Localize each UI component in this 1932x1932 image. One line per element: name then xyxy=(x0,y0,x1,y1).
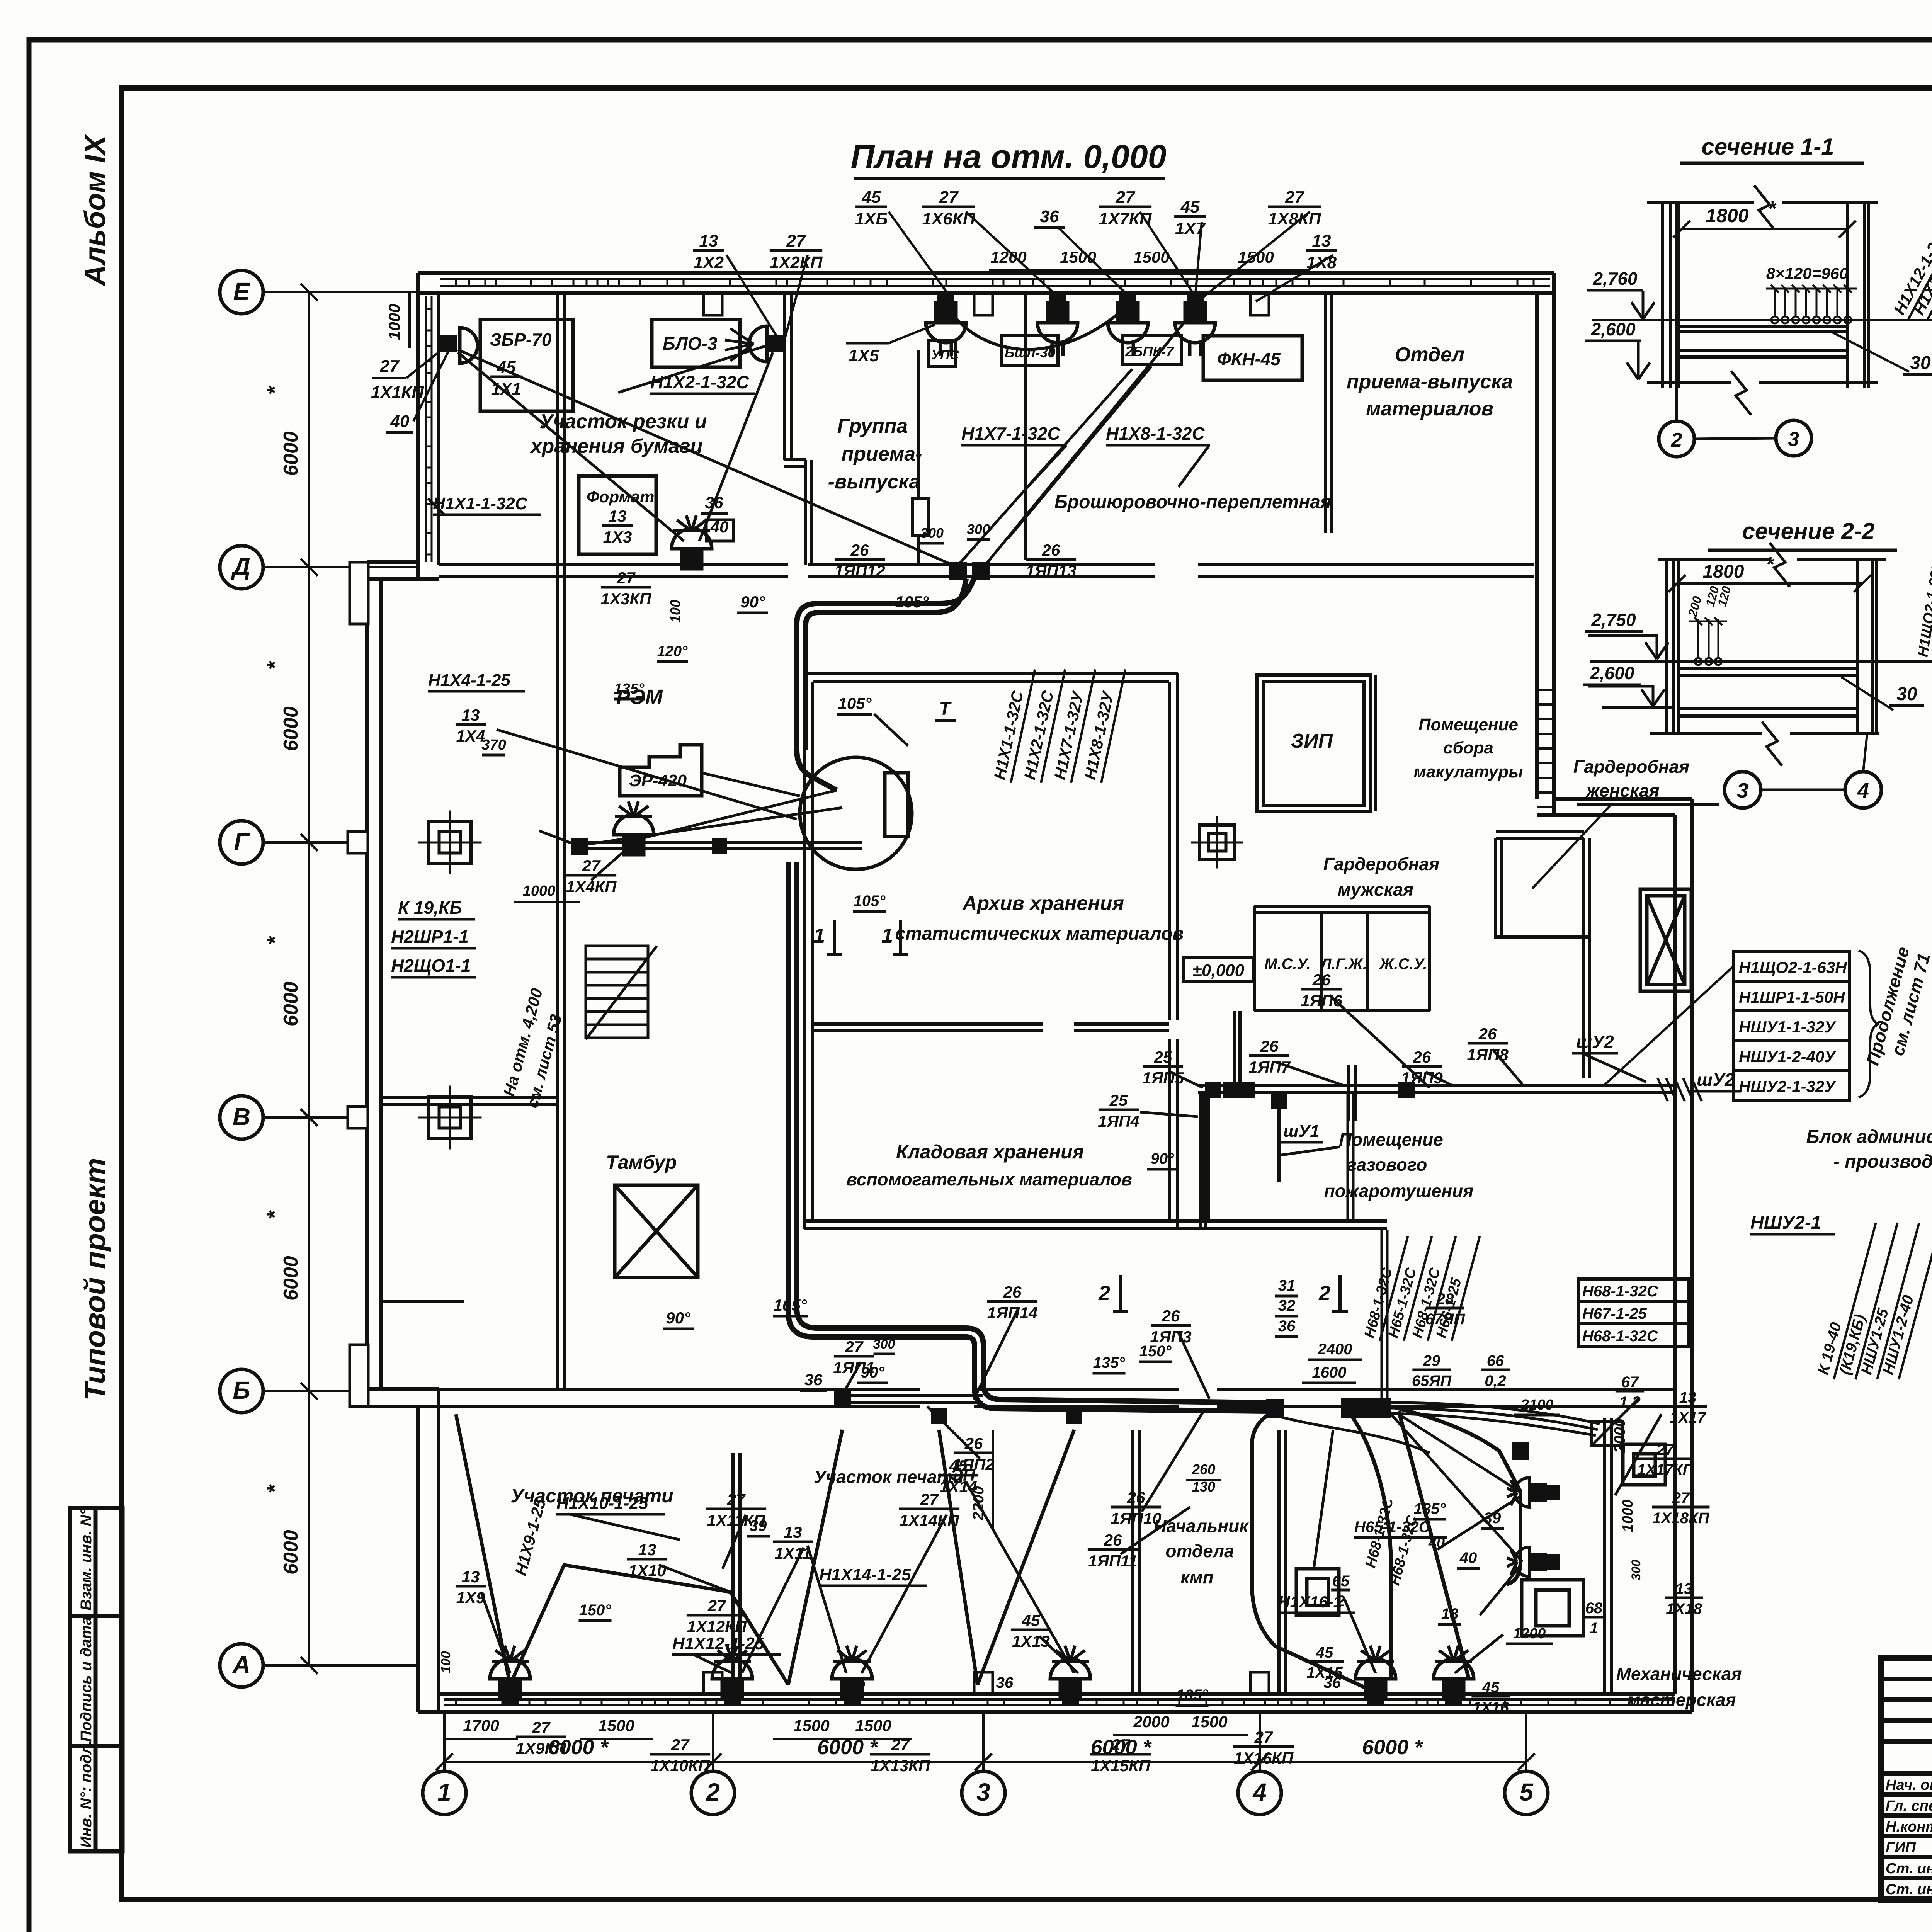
svg-text:Кладовая хранения: Кладовая хранения xyxy=(896,1141,1084,1163)
corridor y2815 boxes xyxy=(1205,1082,1221,1098)
svg-text:сечение 2-2: сечение 2-2 xyxy=(1742,518,1874,544)
svg-text:*: * xyxy=(1766,553,1775,576)
right rooms lamps xyxy=(1507,1478,1546,1507)
svg-text:НШУ2-1: НШУ2-1 xyxy=(1750,1213,1821,1233)
axis circles left xyxy=(220,270,263,314)
svg-text:26: 26 xyxy=(1312,971,1331,989)
svg-text:32: 32 xyxy=(1278,1297,1296,1314)
svg-text:3: 3 xyxy=(1737,779,1748,802)
svg-text:НШУ1-2-40У: НШУ1-2-40У xyxy=(1739,1048,1837,1066)
hatch ticks at shU2 wall crossing xyxy=(1658,1078,1702,1101)
svg-text:45: 45 xyxy=(949,1457,968,1475)
svg-text:1ЯП6: 1ЯП6 xyxy=(1301,992,1342,1010)
left bottom diagonals (lamp circuits) xyxy=(456,1414,1074,1685)
FKN-45 box xyxy=(1203,336,1302,380)
wardrobe block walls right wing xyxy=(1496,831,1589,1078)
svg-text:План на отм. 0,000: План на отм. 0,000 xyxy=(850,138,1166,175)
svg-text:26: 26 xyxy=(1042,541,1060,559)
R5 cluster to bottom right rooms xyxy=(1252,1406,1520,1692)
svg-text:6000: 6000 xyxy=(280,431,302,476)
svg-text:36: 36 xyxy=(1040,207,1059,226)
svg-text:30: 30 xyxy=(1910,353,1931,373)
svg-text:1ХБ: 1ХБ xyxy=(855,209,888,228)
stair in right strip xyxy=(1537,690,1554,807)
lamp near BLO-3 xyxy=(768,335,785,352)
svg-text:Блок административно-: Блок административно- xyxy=(1806,1127,1932,1147)
svg-text:1Х10КП: 1Х10КП xyxy=(650,1757,710,1775)
svg-text:65ЯП: 65ЯП xyxy=(1412,1372,1452,1389)
top wall lamps xyxy=(937,292,954,309)
Format box xyxy=(579,476,656,554)
svg-text:Е: Е xyxy=(233,277,251,305)
svg-text:шУ1: шУ1 xyxy=(1283,1122,1319,1141)
svg-text:*: * xyxy=(262,386,287,395)
svg-text:31: 31 xyxy=(1278,1277,1296,1294)
svg-text:Н67-1-25: Н67-1-25 xyxy=(1582,1305,1647,1322)
svg-text:Б: Б xyxy=(233,1376,250,1404)
svg-text:40: 40 xyxy=(1428,1535,1445,1551)
lower corridor boxes xyxy=(834,1389,851,1406)
svg-text:Механическая: Механическая xyxy=(1616,1664,1742,1684)
svg-text:1500: 1500 xyxy=(1191,1713,1227,1731)
svg-text:1500: 1500 xyxy=(598,1716,634,1735)
svg-text:13: 13 xyxy=(638,1541,656,1559)
svg-text:шУ2: шУ2 xyxy=(1576,1032,1614,1052)
svg-text:1Х13КП: 1Х13КП xyxy=(871,1757,930,1775)
svg-text:29: 29 xyxy=(1423,1352,1440,1369)
svg-text:Н1Х2-1-32С: Н1Х2-1-32С xyxy=(650,372,749,392)
svg-text:мастерская: мастерская xyxy=(1627,1690,1736,1710)
svg-text:1ЯП11: 1ЯП11 xyxy=(1088,1552,1138,1570)
svg-text:45: 45 xyxy=(862,188,881,207)
svg-text:13: 13 xyxy=(1679,1389,1697,1406)
svg-text:6000: 6000 xyxy=(280,1530,302,1575)
interior partitions xyxy=(381,293,1675,1694)
svg-text:1Х1: 1Х1 xyxy=(491,379,521,398)
svg-text:2,760: 2,760 xyxy=(1592,269,1638,289)
svg-text:13: 13 xyxy=(462,1568,480,1586)
svg-text:1Х9: 1Х9 xyxy=(456,1588,485,1607)
2BPK-7 box xyxy=(1122,336,1181,365)
svg-text:Н1Х4-1-25: Н1Х4-1-25 xyxy=(428,671,510,690)
svg-text:90°: 90° xyxy=(666,1309,691,1327)
top fraction labels xyxy=(693,231,724,272)
bottom wall lamps xyxy=(490,1646,530,1699)
svg-text:135°: 135° xyxy=(614,681,645,697)
svg-text:2,600: 2,600 xyxy=(1589,663,1634,683)
otdel priema left wall xyxy=(381,293,1332,1301)
UPS box xyxy=(929,341,955,366)
svg-text:2100: 2100 xyxy=(1520,1397,1554,1413)
svg-text:ЗИП: ЗИП xyxy=(1291,730,1333,752)
svg-text:1ЯП8: 1ЯП8 xyxy=(1467,1046,1509,1064)
column symbols xyxy=(418,811,482,874)
svg-text:300: 300 xyxy=(873,1337,895,1352)
svg-text:45: 45 xyxy=(1482,1679,1500,1696)
svg-text:Н1Х12-1-25: Н1Х12-1-25 xyxy=(672,1634,764,1653)
svg-text:6000: 6000 xyxy=(280,1256,302,1301)
svg-text:женская: женская xyxy=(1585,781,1659,801)
svg-text:сечение 1-1: сечение 1-1 xyxy=(1701,134,1834,160)
svg-text:45: 45 xyxy=(1316,1644,1333,1661)
svg-text:1ЯП12: 1ЯП12 xyxy=(835,562,885,580)
svg-text:1Х9КП: 1Х9КП xyxy=(516,1739,567,1757)
svg-text:1600: 1600 xyxy=(1312,1364,1347,1381)
svg-text:2,750: 2,750 xyxy=(1591,610,1636,630)
axis circles bottom xyxy=(423,1771,466,1815)
svg-text:НШУ2-1-32У: НШУ2-1-32У xyxy=(1739,1077,1837,1095)
svg-text:1Х4КП: 1Х4КП xyxy=(566,878,617,896)
svg-text:1Х16КП: 1Х16КП xyxy=(1234,1749,1294,1767)
svg-text:Ж.С.У.: Ж.С.У. xyxy=(1379,956,1427,973)
svg-text:ЗБР-70: ЗБР-70 xyxy=(490,330,552,350)
svg-text:36: 36 xyxy=(1278,1318,1296,1335)
svg-text:Н.контр.: Н.контр. xyxy=(1886,1819,1932,1835)
wall columns xyxy=(348,294,1269,1694)
svg-text:26: 26 xyxy=(850,541,869,559)
svg-text:Типовой проект: Типовой проект xyxy=(79,1158,112,1401)
svg-text:26: 26 xyxy=(1413,1048,1431,1066)
svg-text:2,600: 2,600 xyxy=(1590,319,1636,339)
svg-text:135°: 135° xyxy=(1414,1500,1446,1517)
svg-text:М.С.У.: М.С.У. xyxy=(1264,956,1311,973)
svg-text:370: 370 xyxy=(481,737,506,753)
tray ticks top xyxy=(456,279,1534,286)
svg-text:1Х16: 1Х16 xyxy=(1473,1699,1509,1716)
svg-text:36: 36 xyxy=(705,493,723,512)
svg-text:1500: 1500 xyxy=(793,1716,829,1735)
svg-text:30: 30 xyxy=(1896,684,1917,704)
svg-text:*: * xyxy=(262,936,287,945)
svg-text:Н1ШР1-1-50Н: Н1ШР1-1-50Н xyxy=(1739,988,1845,1006)
svg-text:25: 25 xyxy=(1109,1091,1128,1109)
svg-text:1Х14КП: 1Х14КП xyxy=(900,1511,959,1529)
svg-text:Альбом IX: Альбом IX xyxy=(79,134,112,287)
svg-text:2: 2 xyxy=(1671,429,1682,451)
svg-text:Л.Г.Ж.: Л.Г.Ж. xyxy=(1320,956,1367,973)
svg-text:8×120=960: 8×120=960 xyxy=(1766,264,1849,282)
svg-text:1Х15КП: 1Х15КП xyxy=(1091,1757,1151,1775)
svg-text:кмп: кмп xyxy=(1180,1567,1213,1587)
svg-text:2000: 2000 xyxy=(1611,1418,1628,1453)
svg-text:Гардеробная: Гардеробная xyxy=(1573,757,1689,777)
svg-text:4: 4 xyxy=(1252,1778,1267,1806)
svg-text:*: * xyxy=(262,1210,287,1219)
svg-text:39: 39 xyxy=(750,1517,767,1534)
title block: main stamp xyxy=(1881,1658,1932,1900)
svg-text:БЛО-3: БЛО-3 xyxy=(663,333,718,354)
svg-text:*: * xyxy=(262,661,287,670)
svg-text:1: 1 xyxy=(437,1778,451,1806)
svg-text:1Х18КП: 1Х18КП xyxy=(1653,1510,1710,1527)
svg-text:1800: 1800 xyxy=(1703,561,1744,582)
svg-text:Н1Х16-1: Н1Х16-1 xyxy=(1278,1593,1342,1611)
svg-text:150°: 150° xyxy=(579,1602,612,1619)
svg-text:1ЯП10: 1ЯП10 xyxy=(1111,1509,1162,1527)
svg-text:Н2ШР1-1: Н2ШР1-1 xyxy=(391,927,469,947)
svg-text:260: 260 xyxy=(1192,1461,1215,1477)
svg-text:36: 36 xyxy=(1324,1674,1341,1691)
svg-text:1Х13: 1Х13 xyxy=(1012,1632,1050,1650)
svg-text:Ст. инж.: Ст. инж. xyxy=(1886,1861,1932,1877)
svg-text:90°: 90° xyxy=(1151,1150,1174,1167)
svg-text:1Х17: 1Х17 xyxy=(1670,1409,1706,1426)
svg-text:Инв. N°: подл.: Инв. N°: подл. xyxy=(78,1740,95,1848)
svg-text:27: 27 xyxy=(1672,1490,1690,1507)
svg-text:газового: газового xyxy=(1347,1155,1427,1175)
svg-text:66: 66 xyxy=(1487,1352,1504,1369)
svg-text:0,2: 0,2 xyxy=(1485,1372,1506,1389)
svg-text:мужская: мужская xyxy=(1338,879,1413,900)
svg-text:Н1Х1-1-32С: Н1Х1-1-32С xyxy=(433,494,528,513)
section 1-1 drawing xyxy=(1647,185,1878,415)
svg-text:2БПК-7: 2БПК-7 xyxy=(1125,344,1175,359)
svg-text:приема-: приема- xyxy=(842,443,922,465)
svg-text:13: 13 xyxy=(609,507,627,525)
svg-text:26: 26 xyxy=(964,1434,983,1452)
svg-text:Взам. инв. N°: Взам. инв. N° xyxy=(78,1509,95,1611)
svg-text:100: 100 xyxy=(439,1651,453,1673)
svg-text:1500: 1500 xyxy=(855,1716,891,1735)
svg-text:Нач. отд.: Нач. отд. xyxy=(1886,1777,1932,1793)
svg-text:статистических материалов: статистических материалов xyxy=(895,923,1184,944)
svg-text:27: 27 xyxy=(1285,188,1305,207)
svg-text:27: 27 xyxy=(845,1338,864,1356)
svg-text:1Х11: 1Х11 xyxy=(775,1544,811,1562)
svg-text:105°: 105° xyxy=(895,593,929,611)
svg-text:1Х2КП: 1Х2КП xyxy=(770,253,823,272)
D-wall junction boxes xyxy=(949,562,967,580)
junction cluster blobs on B wall xyxy=(1266,1399,1284,1418)
svg-text:27: 27 xyxy=(1656,1441,1675,1458)
main cable route R1: from D-wall boxes to T machine xyxy=(797,579,974,790)
svg-text:18: 18 xyxy=(1441,1605,1459,1622)
svg-text:Д: Д xyxy=(231,553,250,580)
svg-text:150°: 150° xyxy=(1139,1343,1172,1360)
svg-text:300: 300 xyxy=(1629,1560,1643,1580)
svg-text:65: 65 xyxy=(1332,1573,1350,1590)
svg-text:Отдел: Отдел xyxy=(1395,344,1464,366)
svg-text:27: 27 xyxy=(1254,1728,1273,1746)
svg-text:1Х5: 1Х5 xyxy=(849,346,879,365)
R3 long corridor route down and right xyxy=(788,862,1267,1411)
svg-text:1700: 1700 xyxy=(463,1716,499,1735)
svg-text:45: 45 xyxy=(1180,197,1200,216)
svg-text:Т: Т xyxy=(939,699,952,719)
svg-text:1200: 1200 xyxy=(1513,1626,1546,1642)
svg-text:Помещение: Помещение xyxy=(1418,715,1518,734)
svg-text:90°: 90° xyxy=(740,593,765,611)
leader diagonals from top labels xyxy=(726,212,1333,340)
ShU1 line xyxy=(1277,1101,1281,1182)
svg-text:1Х17КП: 1Х17КП xyxy=(1637,1461,1694,1478)
svg-text:13: 13 xyxy=(699,231,718,250)
svg-text:Помещение: Помещение xyxy=(1339,1129,1443,1150)
svg-text:УПС: УПС xyxy=(931,348,959,362)
svg-text:6000: 6000 xyxy=(280,706,302,751)
svg-text:27: 27 xyxy=(707,1597,726,1615)
svg-text:36: 36 xyxy=(996,1674,1014,1691)
svg-text:300: 300 xyxy=(920,525,944,541)
tray ticks bottom xyxy=(456,1699,1631,1705)
svg-text:Начальник: Начальник xyxy=(1153,1516,1249,1536)
svg-text:27: 27 xyxy=(727,1490,746,1509)
svg-text:135°: 135° xyxy=(1093,1354,1126,1371)
svg-text:39: 39 xyxy=(1484,1510,1501,1527)
svg-text:1500: 1500 xyxy=(1060,248,1096,266)
svg-text:ФКН-45: ФКН-45 xyxy=(1217,349,1281,369)
leader diagonals across rooms xyxy=(428,309,1662,1673)
boxed 3-cable list right xyxy=(1578,1279,1689,1346)
svg-text:1Х8КП: 1Х8КП xyxy=(1268,209,1321,228)
R4 corridor cable at y2815 xyxy=(1198,1086,1673,1221)
svg-text:1800: 1800 xyxy=(1706,205,1748,226)
svg-text:Н68-1-32С: Н68-1-32С xyxy=(1582,1328,1658,1345)
svg-text:40: 40 xyxy=(390,412,410,431)
svg-text:вспомогательных материалов: вспомогательных материалов xyxy=(846,1169,1132,1189)
vertical pair from corridor to cluster xyxy=(1348,1094,1387,1398)
svg-text:1ЯП7: 1ЯП7 xyxy=(1248,1058,1291,1076)
Bshp-30 box xyxy=(1002,336,1058,366)
svg-text:26: 26 xyxy=(1478,1025,1497,1043)
svg-text:Гардеробная: Гардеробная xyxy=(1323,854,1439,874)
svg-text:27: 27 xyxy=(671,1736,690,1754)
svg-text:1: 1 xyxy=(881,924,893,947)
svg-text:Н1Х7-1-32С: Н1Х7-1-32С xyxy=(961,423,1060,444)
top-left corner lamp xyxy=(440,335,457,352)
svg-text:67: 67 xyxy=(1621,1374,1639,1391)
REM lamp xyxy=(614,801,654,855)
lift shaft tambour xyxy=(615,1185,698,1277)
svg-text:27: 27 xyxy=(786,231,806,250)
svg-text:Ст. инж.: Ст. инж. xyxy=(1886,1881,1932,1898)
device boxes bottom right xyxy=(1296,1444,1665,1636)
svg-text:Н1Х10-1-25: Н1Х10-1-25 xyxy=(556,1494,648,1513)
svg-text:1Х3КП: 1Х3КП xyxy=(601,590,652,608)
svg-text:Формат: Формат xyxy=(587,488,654,506)
svg-text:27: 27 xyxy=(939,188,959,207)
svg-text:27: 27 xyxy=(380,357,400,376)
svg-text:1Х10: 1Х10 xyxy=(628,1561,666,1580)
svg-text:1ЯП1: 1ЯП1 xyxy=(833,1359,875,1377)
svg-text:приема-выпуска: приема-выпуска xyxy=(1347,371,1513,393)
ZBR-70 box xyxy=(480,320,573,411)
section 2-2 drawing xyxy=(1650,543,1886,766)
svg-text:2: 2 xyxy=(1318,1282,1330,1305)
svg-text:1000: 1000 xyxy=(385,304,403,340)
svg-text:1,2: 1,2 xyxy=(1619,1394,1641,1411)
svg-text:*: * xyxy=(1767,197,1777,220)
svg-text:1000: 1000 xyxy=(1620,1499,1636,1532)
svg-text:1Х14: 1Х14 xyxy=(939,1478,977,1496)
svg-text:40: 40 xyxy=(1459,1549,1477,1566)
svg-text:Н1Х8-1-32С: Н1Х8-1-32С xyxy=(1106,423,1205,444)
svg-text:27: 27 xyxy=(582,857,601,875)
svg-text:НШУ1-1-32У: НШУ1-1-32У xyxy=(1739,1018,1837,1036)
svg-text:ГИП: ГИП xyxy=(1886,1840,1916,1856)
svg-text:1: 1 xyxy=(813,924,825,947)
svg-text:материалов: материалов xyxy=(1366,398,1493,420)
svg-text:27: 27 xyxy=(920,1490,939,1509)
svg-text:В: В xyxy=(233,1103,250,1131)
svg-text:Тамбур: Тамбур xyxy=(606,1151,677,1173)
svg-text:68: 68 xyxy=(1585,1600,1603,1617)
sidebar stamp boxes xyxy=(70,1508,122,1851)
svg-text:1ЯП13: 1ЯП13 xyxy=(1026,562,1077,580)
svg-text:1000: 1000 xyxy=(523,883,556,899)
bottom dimension chain xyxy=(444,1761,1526,1763)
svg-text:36: 36 xyxy=(804,1371,823,1389)
svg-text:ЭР-420: ЭР-420 xyxy=(629,771,687,790)
svg-text:26: 26 xyxy=(1127,1488,1145,1507)
svg-text:45: 45 xyxy=(1022,1611,1040,1629)
svg-text:-выпуска: -выпуска xyxy=(828,471,920,493)
svg-text:105°: 105° xyxy=(1176,1687,1209,1704)
svg-text:Архив хранения: Архив хранения xyxy=(962,892,1124,915)
svg-text:Брошюровочно-переплетная: Брошюровочно-переплетная xyxy=(1054,492,1331,512)
svg-text:6000: 6000 xyxy=(280,981,302,1026)
svg-text:36: 36 xyxy=(849,1674,866,1691)
svg-text:отдела: отдела xyxy=(1165,1541,1234,1561)
left dimension chain xyxy=(308,292,310,1665)
svg-text:сбора: сбора xyxy=(1443,738,1493,757)
svg-text:26: 26 xyxy=(1104,1531,1122,1549)
svg-text:27: 27 xyxy=(1111,1736,1130,1754)
band of cables cluster to right wall xyxy=(1268,1403,1600,1453)
svg-text:1500: 1500 xyxy=(1238,248,1274,266)
svg-text:120°: 120° xyxy=(657,643,688,660)
left wall inner cable run xyxy=(426,296,432,562)
boxed cable list right of plan xyxy=(1734,951,1850,1100)
svg-text:1ЯП4: 1ЯП4 xyxy=(1098,1112,1139,1130)
svg-text:1: 1 xyxy=(1590,1620,1598,1637)
svg-text:±0,000: ±0,000 xyxy=(1192,961,1245,980)
svg-text:Н68-1-32С: Н68-1-32С xyxy=(1582,1283,1658,1300)
svg-text:26: 26 xyxy=(1162,1307,1180,1325)
svg-text:1Х12КП: 1Х12КП xyxy=(687,1617,747,1636)
svg-text:26: 26 xyxy=(1260,1037,1279,1055)
svg-text:Подпись и дата: Подпись и дата xyxy=(78,1617,95,1742)
top wall drops xyxy=(919,294,1128,565)
svg-text:Н65-1-32С: Н65-1-32С xyxy=(1354,1519,1430,1536)
building exterior walls xyxy=(367,273,1692,1712)
svg-text:26: 26 xyxy=(1003,1283,1022,1301)
svg-text:Н1ЩО2-1-63Н: Н1ЩО2-1-63Н xyxy=(1739,958,1847,976)
svg-text:1Х1КП: 1Х1КП xyxy=(371,383,424,402)
svg-text:27: 27 xyxy=(617,569,636,587)
svg-text:Н2ЩО1-1: Н2ЩО1-1 xyxy=(391,956,471,976)
R2 horizontal in REM room xyxy=(580,842,862,849)
svg-text:2000: 2000 xyxy=(1133,1713,1169,1731)
svg-text:4: 4 xyxy=(1857,779,1869,802)
stairs xyxy=(586,946,657,1039)
svg-text:макулатуры: макулатуры xyxy=(1413,762,1523,781)
svg-text:Н1Х14-1-25: Н1Х14-1-25 xyxy=(819,1565,911,1584)
svg-text:13: 13 xyxy=(462,706,480,724)
svg-text:1Х3: 1Х3 xyxy=(603,528,632,546)
svg-text:1ЯП9: 1ЯП9 xyxy=(1401,1069,1443,1087)
svg-text:2: 2 xyxy=(1098,1282,1110,1305)
svg-text:Группа: Группа xyxy=(837,415,908,437)
svg-text:25: 25 xyxy=(1154,1048,1172,1066)
svg-text:1ЯП14: 1ЯП14 xyxy=(987,1304,1038,1322)
svg-text:105°: 105° xyxy=(854,893,886,910)
svg-text:Г: Г xyxy=(234,828,250,855)
BLO-3 box xyxy=(652,320,740,367)
svg-text:2400: 2400 xyxy=(1318,1341,1352,1358)
svg-text:1Х2: 1Х2 xyxy=(694,253,724,272)
svg-text:3: 3 xyxy=(1788,428,1799,451)
